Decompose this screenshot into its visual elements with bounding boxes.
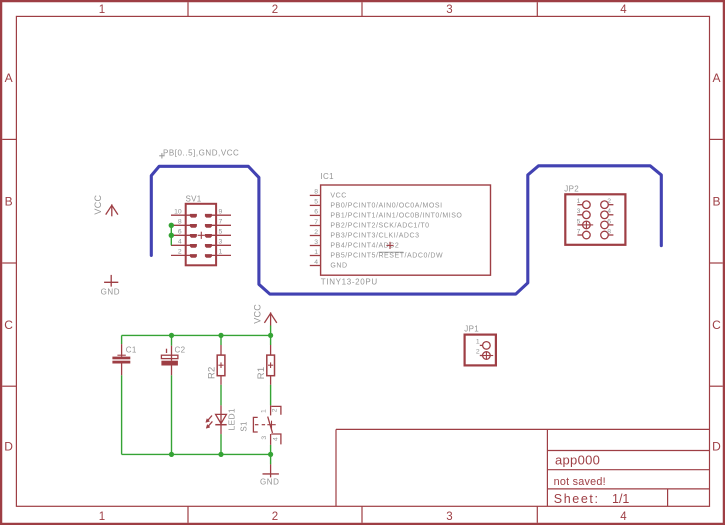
JP2 pad 1 [577,201,590,209]
SV1 pin 7 (right) [205,224,231,228]
frame column ticks bottom [188,506,537,523]
svg-text:2: 2 [314,229,318,236]
svg-text:GND: GND [330,263,347,270]
svg-text:C: C [4,318,13,332]
svg-text:PB[0..5],GND,VCC: PB[0..5],GND,VCC [163,149,239,158]
svg-text:1: 1 [314,249,318,256]
svg-text:VCC: VCC [93,194,103,214]
IC1 box [321,185,491,275]
svg-text:9: 9 [219,209,223,216]
svg-text:TINY13-20PU: TINY13-20PU [321,277,378,286]
svg-text:C1: C1 [126,346,137,355]
svg-text:1: 1 [99,4,105,16]
svg-text:not saved!: not saved! [554,476,606,488]
junction bottom C2 [169,452,174,457]
svg-text:2: 2 [272,4,278,16]
svg-text:A: A [5,71,13,85]
svg-text:B: B [712,194,720,208]
svg-text:JP2: JP2 [564,185,579,194]
IC1 pin 8 stub [310,194,321,196]
frame row ticks left [2,139,16,386]
wire R2 top [220,335,222,345]
wire S1 bottom [270,445,272,465]
SV1 pin 10 (left) [171,214,197,218]
wire LED1 bottom [220,434,222,454]
svg-text:A: A [712,71,720,85]
wire bottom rail GND [122,453,271,455]
svg-text:4: 4 [314,259,318,266]
frame column labels bottom [99,511,627,523]
JP2 pad 8 [601,231,614,239]
svg-text:C2: C2 [175,346,186,355]
svg-text:3: 3 [577,208,581,215]
SV1 pin 6 (left) [171,234,197,238]
junction top R1 [268,333,273,338]
svg-text:4: 4 [607,208,611,215]
JP2 pad 6 [601,221,614,229]
capacitor C1 [112,344,130,375]
IC1 pin 1 stub [310,255,321,257]
JP1 pad 2 [480,352,490,360]
JP2 pad 3 [577,211,590,219]
JP2 pad 2 [601,201,614,209]
svg-text:JP1: JP1 [464,324,479,333]
junction bottom LED1 [218,452,223,457]
svg-text:B: B [5,194,13,208]
SV1 origin cross [198,232,205,239]
junction top C2 [169,333,174,338]
bus label cross [159,153,164,158]
junction top R2 [218,333,223,338]
connector JP2 box [565,194,625,245]
frame row labels right [712,71,721,454]
IC1 pin 7 stub [310,225,321,227]
svg-text:4: 4 [620,511,627,523]
svg-text:app000: app000 [555,452,600,467]
JP1 origin cross [481,352,493,360]
svg-text:PB3/PCINT3/CLKI/ADC3: PB3/PCINT3/CLKI/ADC3 [330,233,419,240]
svg-text:4: 4 [273,437,280,441]
svg-text:1: 1 [476,339,480,346]
svg-text:2: 2 [178,249,182,256]
svg-text:7: 7 [577,228,581,235]
svg-text:C: C [712,318,721,332]
IC1 origin cross [386,242,393,249]
JP2 pad 5 [577,221,590,229]
junction SV1 pin 6 [169,233,174,238]
wire C1 bottom [121,375,123,454]
svg-text:D: D [712,439,721,453]
svg-text:GND: GND [101,287,120,296]
svg-text:3: 3 [314,239,318,246]
svg-text:1/1: 1/1 [612,492,629,506]
svg-text:PB5/PCINT5/RESET/ADC0/DW: PB5/PCINT5/RESET/ADC0/DW [330,253,443,260]
SV1 pin 5 (right) [205,234,231,238]
VCC symbol above R1 [264,312,276,325]
JP2 pad 4 [601,211,614,219]
svg-text:PB1/PCINT1/AIN1/OC0B/INT0/MISO: PB1/PCINT1/AIN1/OC0B/INT0/MISO [330,213,462,220]
title block grid [336,429,710,506]
wire C2 top [171,335,173,345]
IC1 pin 2 stub [310,235,321,237]
svg-text:S1: S1 [239,421,248,432]
IC1 RESET overline [379,251,404,253]
JP2 origin cross [581,221,593,229]
svg-text:8: 8 [178,219,182,226]
SV1 pin 3 (right) [205,244,231,248]
svg-text:4: 4 [620,4,627,16]
svg-text:6: 6 [178,229,182,236]
wire R1 to S1 [270,385,272,406]
switch S1 [253,405,281,444]
SV1 pin 8 (left) [171,224,197,228]
svg-text:5: 5 [314,199,318,206]
GND symbol (floating, left) [104,275,118,287]
svg-text:1: 1 [99,511,105,523]
JP1 pad 1 [480,342,490,350]
svg-text:8: 8 [314,189,318,196]
IC1 pin 6 stub [310,214,321,216]
svg-text:7: 7 [314,219,318,226]
frame column ticks top [188,2,537,16]
wire top rail VCC [122,334,271,336]
svg-text:4: 4 [178,239,182,246]
svg-text:2: 2 [607,198,611,205]
svg-text:5: 5 [577,218,581,225]
SV1 pin 4 (left) [171,244,197,248]
svg-text:VCC: VCC [330,193,346,200]
bus PB[0..5],GND,VCC [151,166,661,294]
svg-text:1: 1 [219,249,223,256]
JP2 pad 7 [577,231,590,239]
svg-text:1: 1 [261,409,268,413]
wire C1 top [121,335,123,344]
resistor R1 [267,345,275,385]
connector JP1 box [465,335,496,366]
svg-text:Sheet:: Sheet: [554,492,600,506]
GND symbol below S1 [263,464,279,477]
svg-text:IC1: IC1 [321,172,335,181]
SV1 pin 9 (right) [205,214,231,218]
svg-text:5: 5 [219,229,223,236]
svg-text:LED1: LED1 [226,408,236,430]
svg-text:7: 7 [219,219,223,226]
frame row labels left [4,71,13,454]
diode LED1 [206,405,227,434]
svg-text:2: 2 [272,408,279,412]
svg-text:VCC: VCC [253,304,263,324]
capacitor C2 (polarized) [161,346,178,376]
wire SV1 pins 8-6-4 [170,225,172,245]
frame row ticks right [710,139,723,386]
svg-text:PB2/PCINT2/SCK/ADC1/T0: PB2/PCINT2/SCK/ADC1/T0 [330,223,429,230]
svg-text:3: 3 [261,436,268,440]
frame column labels top [99,4,627,16]
wire VCC to R1 [270,326,272,346]
svg-text:PB0/PCINT0/AIN0/OC0A/MOSI: PB0/PCINT0/AIN0/OC0A/MOSI [330,203,442,210]
svg-text:6: 6 [607,218,611,225]
svg-text:R1: R1 [256,367,267,380]
SV1 pin 2 (left) [171,254,197,258]
wire C2 bottom [171,375,173,454]
junction SV1 pin 8 [169,223,174,228]
svg-text:8: 8 [607,228,611,235]
IC1 pin 3 stub [310,245,321,247]
junction bottom S1 [268,452,273,457]
svg-text:6: 6 [314,209,318,216]
svg-text:3: 3 [219,239,223,246]
svg-text:PB4/PCINT4/ADC2: PB4/PCINT4/ADC2 [330,243,399,250]
IC1 pin 4 stub [310,265,321,267]
IC1 pin 5 stub [310,204,321,206]
resistor R2 [217,345,225,385]
svg-text:SV1: SV1 [186,194,202,203]
SV1 pin 1 (right) [205,254,231,258]
svg-text:D: D [4,439,13,453]
svg-text:10: 10 [174,209,182,216]
svg-text:GND: GND [260,478,279,487]
connector SV1 box [186,204,216,265]
svg-text:2: 2 [476,349,480,356]
svg-text:2: 2 [272,511,278,523]
svg-text:3: 3 [446,4,452,16]
svg-text:3: 3 [446,511,452,523]
VCC symbol (floating, left) [106,204,118,216]
svg-text:1: 1 [577,198,581,205]
wire R2 to LED1 [220,385,222,406]
svg-text:R2: R2 [207,366,218,379]
